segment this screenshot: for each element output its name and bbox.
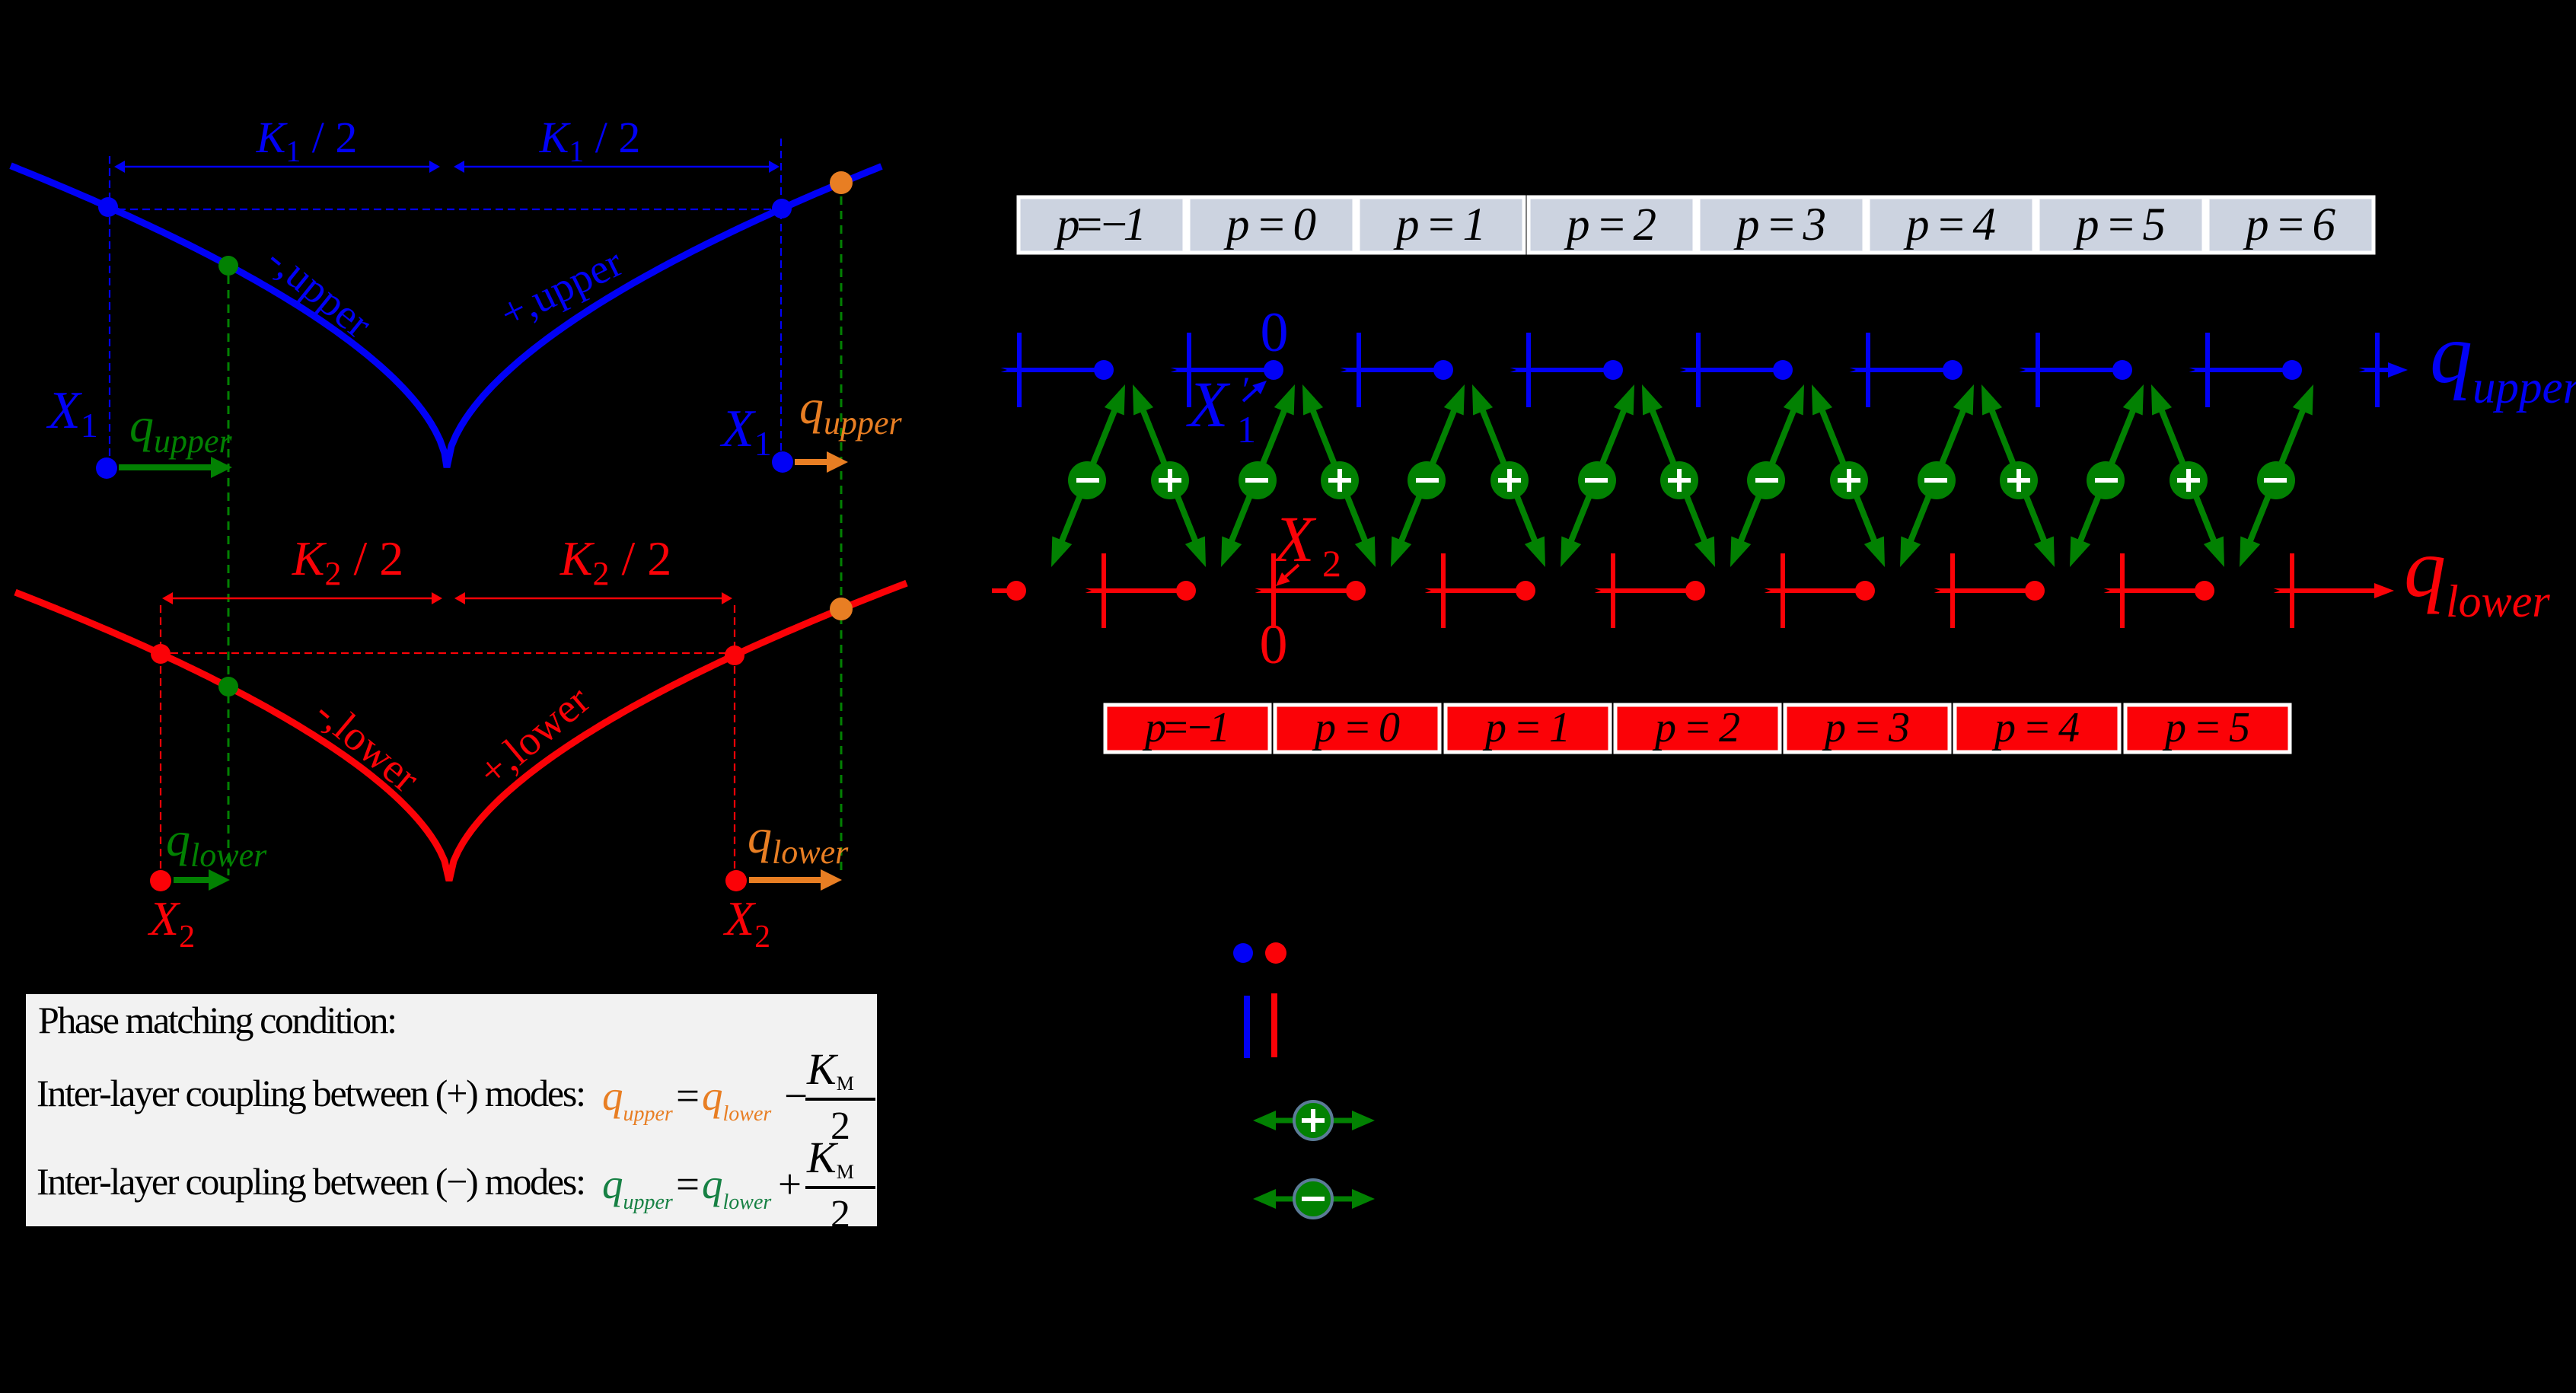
coupling circle minus 6 (1578, 461, 1616, 499)
red zone box p=2 (1615, 705, 1780, 752)
svg-text:K2 / 2: K2 / 2 (560, 531, 671, 592)
red tick 0 (1101, 553, 1106, 628)
red tick 6 (2120, 553, 2125, 628)
svg-text:p=4: p=4 (1991, 704, 2080, 751)
coupling arrow up 3 (1569, 404, 1627, 547)
coupling arrow up 4 (1739, 404, 1797, 547)
thin blue dashed vertical at X1 right (780, 139, 782, 451)
svg-text:p=3: p=3 (1733, 199, 1826, 250)
svg-text:p=−1: p=−1 (1054, 199, 1146, 250)
blue axis segment 7 (2185, 368, 2292, 372)
red dot on curve left arm (151, 644, 171, 664)
blue dot 7 on q_upper axis (2282, 360, 2302, 380)
red zone box p=1 (1446, 705, 1610, 752)
gray zone box p=5 (2038, 197, 2204, 253)
coupling arrow down 2 (1481, 405, 1538, 547)
svg-text:p=5: p=5 (2162, 704, 2250, 751)
gray zone box p=−1 (1019, 197, 1184, 253)
blue tick 0 (1017, 333, 1022, 407)
svg-text:Inter-layer coupling between (: Inter-layer coupling between (+) modes: (37, 1072, 586, 1114)
green dot on red curve (218, 677, 238, 696)
legend minus mode arrow (1273, 1197, 1353, 1202)
legend blue dot (1233, 943, 1253, 963)
coupling arrow down 0 (1141, 405, 1198, 547)
coupling circle plus 5 (1490, 461, 1529, 499)
legend red dot (1265, 942, 1286, 964)
svg-text:K2 / 2: K2 / 2 (292, 531, 403, 592)
svg-text:p=1: p=1 (1482, 704, 1570, 751)
blue dot on curve right arm (772, 199, 792, 218)
coupling arrow up 0 (1060, 404, 1117, 547)
blue axis segment 6 (2016, 368, 2122, 372)
coupling arrow up 5 (1908, 404, 1966, 547)
legend red bar (1271, 993, 1277, 1057)
svg-text:Phase matching condition:: Phase matching condition: (38, 999, 397, 1041)
blue dashed horizontal connector (118, 209, 773, 210)
phase matching condition box (26, 994, 877, 1226)
blue axis segment 5 (1846, 368, 1953, 372)
red dot 1 on q_lower axis (1176, 581, 1196, 601)
red dot 6 on q_lower axis (2025, 581, 2045, 601)
svg-text:p=0: p=0 (1223, 199, 1316, 250)
blue axis segment 2 (1337, 368, 1443, 372)
red zone box p=4 (1955, 705, 2119, 752)
blue tick 5 (1866, 333, 1870, 407)
q_upper orange arrow (795, 459, 830, 465)
svg-text:p=5: p=5 (2073, 199, 2166, 250)
blue dot 3 on q_upper axis (1603, 360, 1623, 380)
red dot 2 on q_lower axis (1346, 581, 1366, 601)
red axis segment 3 (1591, 588, 1695, 593)
thin blue dashed vertical at X1 left (109, 156, 110, 457)
green dashed vertical left (q_upper tip / q_lower tip) (228, 276, 230, 875)
svg-text:p=2: p=2 (1652, 704, 1740, 751)
svg-text:p=6: p=6 (2243, 199, 2336, 250)
svg-text:p=2: p=2 (1564, 199, 1656, 250)
svg-text:2: 2 (831, 1193, 850, 1236)
red zone box p=3 (1785, 705, 1950, 752)
coupling circle plus 7 (1660, 461, 1698, 499)
orange dot on red curve (830, 598, 853, 620)
red dot on curve right arm (725, 645, 744, 665)
X2 pointer arrow (1283, 565, 1299, 579)
coupling arrow down 1 (1311, 405, 1368, 547)
coupling arrow up 6 (2078, 404, 2136, 547)
blue axis segment 1 (1167, 368, 1274, 372)
blue dot 5 on q_upper axis (1943, 360, 1962, 380)
coupling circle minus 12 (2087, 461, 2125, 499)
thin red dashed vertical at X2 left (160, 605, 161, 875)
blue dot 6 on q_upper axis (2112, 360, 2132, 380)
coupling circle minus 4 (1408, 461, 1446, 499)
svg-text:0: 0 (1260, 614, 1288, 676)
svg-text:X: X (1186, 368, 1231, 441)
gray zone box p=1 (1358, 197, 1524, 253)
coupling arrow down 4 (1820, 405, 1877, 547)
gray zone box p=4 (1868, 197, 2034, 253)
svg-text:p=1: p=1 (1393, 199, 1486, 250)
blue axis segment 4 (1676, 368, 1783, 372)
coupling arrow up 7 (2248, 404, 2306, 547)
red tick 1 (1271, 553, 1276, 628)
upper dispersion curve (blue V) (11, 166, 882, 467)
thin red dashed vertical at X2 right (734, 605, 735, 875)
X1 bottom-left dot (96, 457, 117, 479)
coupling circle plus 13 (2170, 461, 2208, 499)
blue axis segment 0 (997, 368, 1104, 372)
red zone box p=0 (1275, 705, 1439, 752)
coupling circle plus 11 (2000, 461, 2038, 499)
blue axis segment 3 (1506, 368, 1613, 372)
legend blue bar (1244, 996, 1250, 1058)
red axis segment 6 (2100, 588, 2205, 593)
blue dot 0 on q_upper axis (1094, 360, 1114, 380)
red dot 7 on q_lower axis (2195, 581, 2214, 601)
coupling arrow down 3 (1650, 405, 1707, 547)
coupling circle minus 14 (2257, 461, 2295, 499)
svg-text:+: + (778, 1161, 802, 1207)
gray zone box p=2 (1529, 197, 1694, 253)
blue tick 8 (2375, 333, 2380, 407)
blue tick 6 (2036, 333, 2040, 407)
orange dot on curve right arm (830, 171, 853, 194)
coupling arrow down 6 (2160, 405, 2217, 547)
svg-text:=: = (676, 1161, 700, 1207)
q_lower orange arrow (725, 870, 747, 891)
red tick 7 (2290, 553, 2294, 628)
green dot on curve left arm (218, 256, 238, 276)
svg-text:p=0: p=0 (1312, 704, 1400, 751)
q_upper green arrow (119, 464, 213, 470)
coupling circle minus 10 (1918, 461, 1956, 499)
lower dispersion curve (red V) (15, 583, 907, 881)
blue tick 2 (1357, 333, 1361, 407)
blue dot on curve left arm (98, 197, 118, 217)
coupling circle minus 0 (1068, 461, 1106, 499)
gray zone box p=0 (1188, 197, 1354, 253)
coupling arrow up 1 (1229, 404, 1287, 547)
red axis arrow segment (2270, 588, 2377, 593)
X1 bottom-right dot (772, 451, 793, 473)
red zone box p=5 (2125, 705, 2290, 752)
svg-text:1: 1 (1237, 408, 1256, 451)
coupling arrow down 5 (1990, 405, 2047, 547)
q_lower green arrow (150, 870, 171, 891)
gray zone box p=3 (1698, 197, 1864, 253)
legend plus mode arrow (1273, 1118, 1353, 1124)
red tick 4 (1781, 553, 1785, 628)
svg-text:K1 / 2: K1 / 2 (539, 113, 641, 168)
svg-text:p=−1: p=−1 (1142, 704, 1230, 751)
blue tick 7 (2205, 333, 2210, 407)
red dot 5 on q_lower axis (1855, 581, 1875, 601)
red axis segment 1 (1251, 588, 1356, 593)
red axis segment 2 (1421, 588, 1526, 593)
red axis left stub (992, 588, 1016, 593)
svg-text:p=3: p=3 (1822, 704, 1910, 751)
svg-text:0: 0 (1261, 301, 1289, 364)
svg-text:′: ′ (1242, 370, 1251, 410)
K2/2 dimension arrows (red) (171, 598, 434, 600)
svg-text:K1 / 2: K1 / 2 (256, 113, 358, 168)
blue tick 4 (1696, 333, 1701, 407)
green dashed vertical right (orange dots) (840, 196, 843, 875)
blue tick 1 (1187, 333, 1191, 407)
blue dot 4 on q_upper axis (1773, 360, 1793, 380)
K1/2 dimension arrows (blue) (123, 166, 432, 168)
svg-text:X: X (1272, 502, 1317, 575)
blue axis arrow segment (2355, 368, 2390, 372)
blue dot 2 on q_upper axis (1433, 360, 1453, 380)
coupling circle plus 9 (1830, 461, 1868, 499)
svg-text:−: − (784, 1073, 808, 1119)
red dot 3 on q_lower axis (1516, 581, 1535, 601)
red axis segment 5 (1930, 588, 2035, 593)
red axis segment 0 (1082, 588, 1186, 593)
gray zone box p=6 (2208, 197, 2374, 253)
red tick 5 (1950, 553, 1955, 628)
svg-text:=: = (676, 1073, 700, 1119)
svg-text:Inter-layer coupling between (: Inter-layer coupling between (−) modes: (37, 1160, 586, 1203)
X1prime pointer arrow (1243, 386, 1260, 401)
red axis segment 4 (1761, 588, 1865, 593)
svg-text:2: 2 (1322, 542, 1341, 585)
coupling circle plus 1 (1151, 461, 1189, 499)
red tick 2 (1441, 553, 1446, 628)
blue tick 3 (1526, 333, 1531, 407)
svg-text:p=4: p=4 (1903, 199, 1996, 250)
red dot 4 on q_lower axis (1685, 581, 1705, 601)
coupling circle minus 8 (1747, 461, 1785, 499)
red dashed horizontal connector (171, 652, 725, 654)
coupling circle minus 2 (1239, 461, 1277, 499)
red zone box p=−1 (1105, 705, 1270, 752)
blue dot 1 on q_upper axis (1264, 360, 1283, 380)
coupling circle plus 3 (1321, 461, 1359, 499)
coupling arrow up 2 (1399, 404, 1457, 547)
red dot 0 on q_lower axis (1006, 581, 1026, 601)
red tick 3 (1611, 553, 1615, 628)
